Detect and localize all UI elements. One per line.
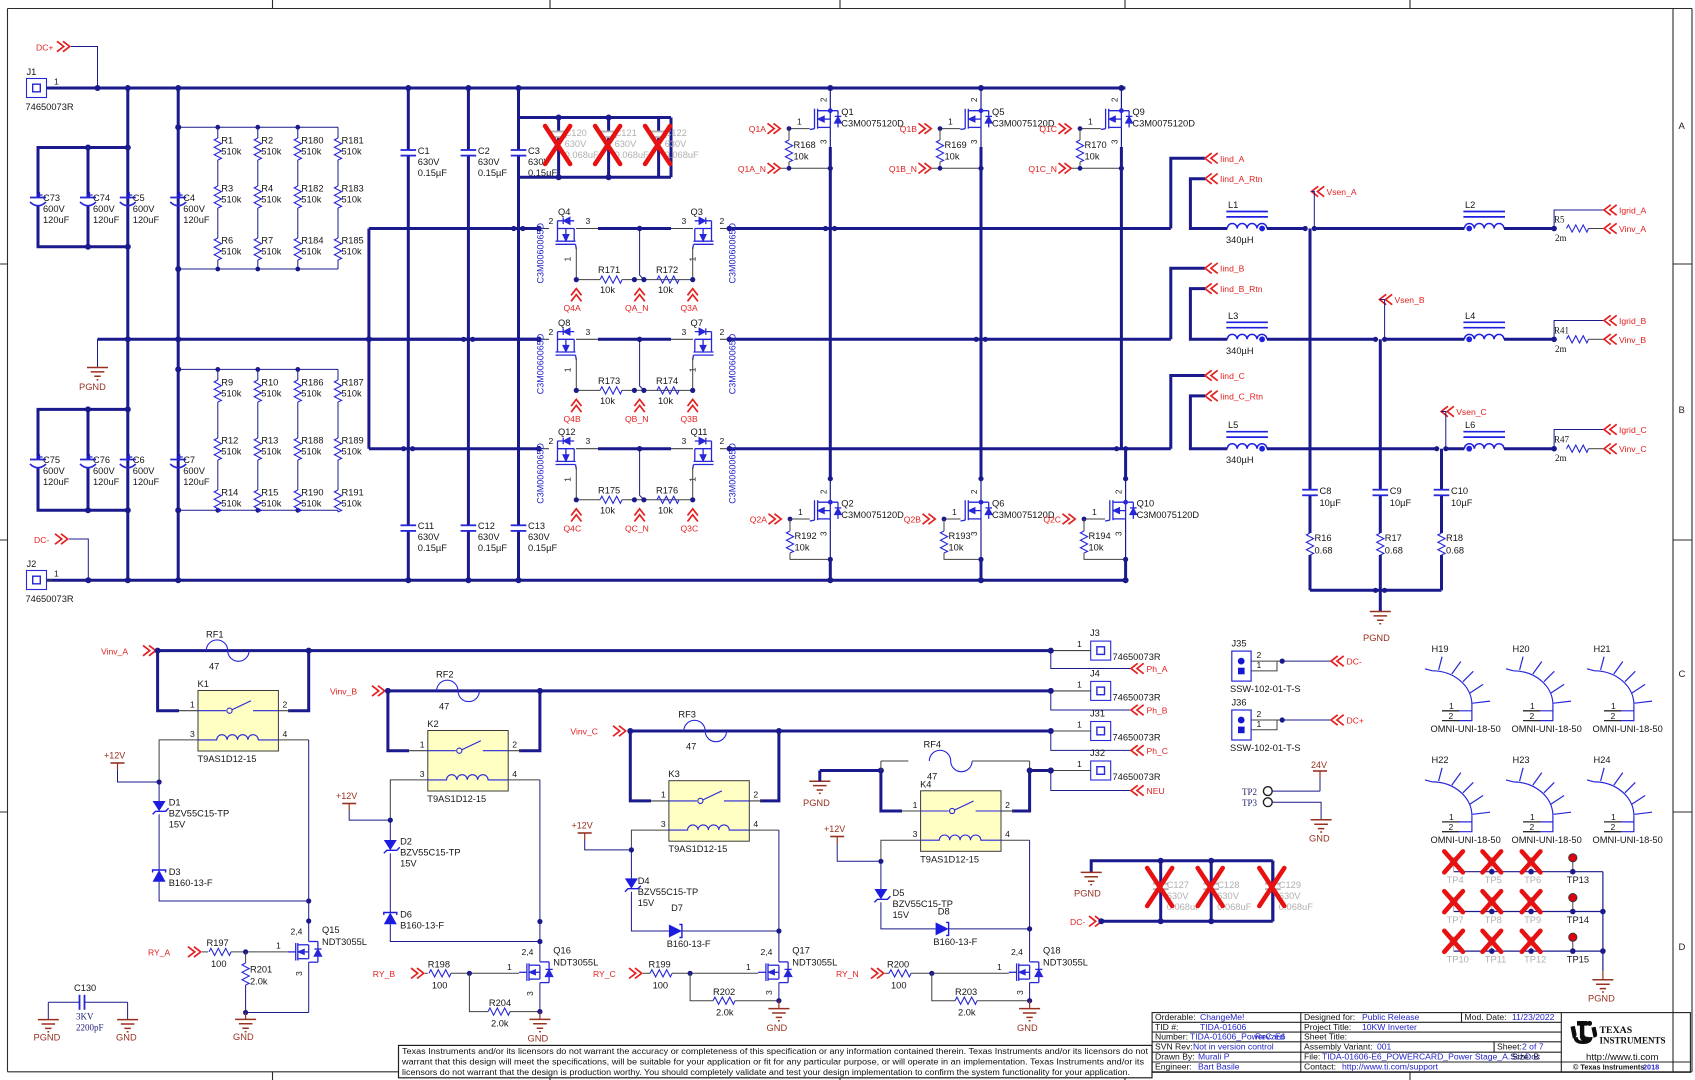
relay K4 T9AS1D12-15 bbox=[921, 791, 1001, 852]
svg-text:R14: R14 bbox=[221, 488, 238, 498]
svg-text:2200pF: 2200pF bbox=[76, 1023, 104, 1033]
svg-text:TP14: TP14 bbox=[1567, 915, 1589, 925]
wire source Q1 bbox=[829, 127, 831, 147]
svg-text:K2: K2 bbox=[427, 719, 438, 729]
svg-text:10µF: 10µF bbox=[1320, 498, 1342, 508]
svg-text:TP7: TP7 bbox=[1447, 915, 1464, 925]
svg-text:510k: 510k bbox=[301, 447, 322, 457]
wire column C10 bbox=[1440, 449, 1443, 490]
svg-text:L2: L2 bbox=[1465, 200, 1475, 210]
ground PGND C127 bank bbox=[1081, 872, 1102, 884]
svg-text:R201: R201 bbox=[250, 965, 272, 975]
wire resnet1 column links bbox=[217, 127, 219, 138]
svg-text:Vinv_A: Vinv_A bbox=[1619, 224, 1646, 234]
resistor R194 10k bbox=[1083, 519, 1085, 531]
svg-text:2: 2 bbox=[1257, 709, 1262, 719]
junctions on DC- bus bbox=[85, 577, 91, 583]
wire junction to L2 bbox=[1314, 227, 1464, 230]
DNP X over C129 bbox=[1259, 868, 1284, 906]
wire row left segment bbox=[369, 338, 539, 341]
wire L4 to sense bbox=[1504, 338, 1554, 341]
svg-text:H19: H19 bbox=[1432, 644, 1449, 654]
capacitor C76 bbox=[80, 459, 96, 461]
svg-text:TID #:: TID #: bbox=[1155, 1022, 1178, 1032]
svg-text:3: 3 bbox=[764, 990, 774, 995]
svg-text:Mod. Date:: Mod. Date: bbox=[1465, 1012, 1507, 1022]
svg-text:C3M0075120D: C3M0075120D bbox=[841, 119, 904, 129]
svg-text:600V: 600V bbox=[133, 204, 156, 214]
svg-text:1: 1 bbox=[1530, 701, 1535, 711]
capacitor C13 0.15uF bbox=[511, 524, 527, 526]
wire D1 to D3 bbox=[158, 814, 160, 870]
wire DC- entry bbox=[69, 539, 88, 580]
DNP X over C128 bbox=[1198, 868, 1223, 906]
svg-text:C12: C12 bbox=[478, 521, 495, 531]
resistor R182 510k bbox=[294, 186, 301, 208]
svg-text:510k: 510k bbox=[221, 499, 242, 509]
test point TP15 bbox=[1569, 933, 1577, 941]
inductor L2 bbox=[1464, 224, 1504, 229]
title block bbox=[1152, 1013, 1690, 1073]
resistor R201 2.0k bbox=[245, 952, 247, 963]
svg-text:2,4: 2,4 bbox=[761, 947, 773, 957]
wire C127 bank bottom rail bbox=[1101, 920, 1273, 923]
diode D7 B160-13-F schottky bbox=[669, 925, 682, 938]
capacitor C10 10uF bbox=[1434, 489, 1450, 491]
svg-text:PGND: PGND bbox=[803, 798, 830, 808]
svg-text:3: 3 bbox=[913, 829, 918, 839]
svg-text:600V: 600V bbox=[183, 466, 206, 476]
wire +12V to D2 bbox=[349, 811, 390, 821]
svg-text:15V: 15V bbox=[400, 859, 417, 869]
wire RY_B to R198 bbox=[425, 972, 428, 974]
test point TP12 DNP bbox=[1528, 937, 1535, 944]
svg-text:3: 3 bbox=[1015, 990, 1025, 995]
svg-text:R191: R191 bbox=[342, 488, 364, 498]
test point TP13 bbox=[1569, 854, 1577, 862]
svg-text:2m: 2m bbox=[1555, 344, 1567, 354]
svg-text:C13: C13 bbox=[528, 521, 545, 531]
net label Vsen_A bbox=[1312, 186, 1325, 196]
svg-text:R171: R171 bbox=[598, 265, 620, 275]
wire K2 right drop bbox=[519, 691, 540, 751]
svg-text:2 of 7: 2 of 7 bbox=[1522, 1042, 1544, 1052]
svg-text:10k: 10k bbox=[795, 543, 810, 553]
svg-text:C3M0060065D: C3M0060065D bbox=[728, 333, 738, 394]
svg-text:2.0k: 2.0k bbox=[958, 1008, 976, 1018]
svg-text:L6: L6 bbox=[1465, 420, 1475, 430]
svg-text:510k: 510k bbox=[221, 195, 242, 205]
diode D4 BZV55C15-TP zener 15V bbox=[630, 850, 632, 879]
svg-text:ChangeMe!: ChangeMe! bbox=[1200, 1012, 1244, 1022]
relay K2 T9AS1D12-15 bbox=[428, 731, 508, 792]
wire J36 pins bbox=[1251, 719, 1282, 721]
svg-text:TP4: TP4 bbox=[1447, 875, 1464, 885]
svg-text:RY_N: RY_N bbox=[836, 969, 859, 979]
svg-text:Q6: Q6 bbox=[992, 499, 1004, 509]
svg-text:Q3A: Q3A bbox=[681, 303, 698, 313]
svg-text:Q9: Q9 bbox=[1132, 107, 1144, 117]
transistor Q7 C3M0060065D bbox=[693, 328, 714, 360]
net label Q3A bbox=[688, 289, 698, 302]
capacitor C8 10uF bbox=[1302, 489, 1318, 491]
wire K2 pin3 lead bbox=[390, 780, 428, 820]
svg-text:1: 1 bbox=[746, 962, 751, 972]
wire D7 to K3.4 node bbox=[682, 930, 779, 932]
svg-text:R169: R169 bbox=[945, 140, 967, 150]
svg-text:Q12: Q12 bbox=[558, 427, 576, 437]
svg-text:1: 1 bbox=[1077, 639, 1082, 649]
wire neutral link column bbox=[367, 229, 370, 449]
svg-text:L3: L3 bbox=[1228, 311, 1238, 321]
svg-text:Public Release: Public Release bbox=[1362, 1012, 1420, 1022]
wire K4 pin3 lead bbox=[881, 840, 921, 861]
svg-text:3: 3 bbox=[586, 216, 591, 226]
svg-text:1: 1 bbox=[1530, 812, 1535, 822]
svg-text:510k: 510k bbox=[221, 389, 242, 399]
resistor R185 510k bbox=[334, 238, 341, 260]
wire drain Q1 bbox=[829, 88, 831, 111]
svg-text:Igrid_A: Igrid_A bbox=[1619, 206, 1646, 216]
wire K3 right drop bbox=[760, 731, 779, 801]
svg-text:SVN Rev:: SVN Rev: bbox=[1155, 1042, 1193, 1052]
wire row right segment bbox=[720, 338, 729, 340]
wire J35 pins bbox=[1251, 660, 1282, 662]
transistor Q16 NDT3055L bbox=[519, 962, 553, 983]
svg-text:11/23/2022: 11/23/2022 bbox=[1512, 1012, 1555, 1022]
diode D8 B160-13-F schottky bbox=[936, 922, 949, 935]
svg-text:+12V: +12V bbox=[104, 751, 125, 761]
svg-text:D2: D2 bbox=[400, 837, 412, 847]
svg-text:3: 3 bbox=[586, 327, 591, 337]
capacitor C122 DNP bbox=[657, 118, 660, 132]
svg-text:R186: R186 bbox=[301, 378, 323, 388]
junction jog Q1 source to row1 bbox=[823, 226, 828, 231]
wire D3 to K1.4 node bbox=[159, 882, 309, 901]
svg-text:600V: 600V bbox=[43, 204, 66, 214]
test point TP8 DNP bbox=[1488, 898, 1495, 905]
svg-text:47: 47 bbox=[439, 702, 449, 712]
resistor R192 10k bbox=[789, 519, 791, 531]
svg-text:R1: R1 bbox=[221, 136, 233, 146]
svg-text:2: 2 bbox=[819, 97, 828, 102]
svg-text:RF1: RF1 bbox=[206, 630, 224, 640]
wire J36 to DC+ bbox=[1282, 719, 1331, 721]
svg-text:2: 2 bbox=[1449, 822, 1454, 832]
svg-text:C3M0060065D: C3M0060065D bbox=[728, 443, 738, 504]
svg-text:B160-13-F: B160-13-F bbox=[933, 937, 977, 947]
svg-text:3: 3 bbox=[970, 531, 979, 536]
svg-text:Q2A: Q2A bbox=[750, 515, 767, 525]
svg-text:TEXAS: TEXAS bbox=[1600, 1025, 1633, 1036]
net label Ph_A bbox=[1131, 663, 1144, 673]
svg-text:Igrid_B: Igrid_B bbox=[1619, 316, 1646, 326]
svg-text:TP9: TP9 bbox=[1524, 915, 1541, 925]
svg-text:Q4: Q4 bbox=[558, 207, 570, 217]
wire Iind_B loop bbox=[1171, 268, 1205, 339]
svg-text:74650073R: 74650073R bbox=[1113, 652, 1161, 662]
resistor R174 10k bbox=[657, 387, 679, 394]
svg-text:R180: R180 bbox=[301, 136, 323, 146]
svg-text:510k: 510k bbox=[301, 195, 322, 205]
junction at filter cap L1 bbox=[1303, 226, 1308, 231]
svg-text:2: 2 bbox=[283, 700, 288, 710]
wire L3 to junction bbox=[1267, 338, 1376, 341]
wire Ph_A branch bbox=[1051, 651, 1131, 669]
resistor R18 0.68 bbox=[1438, 533, 1445, 555]
svg-text:2: 2 bbox=[1257, 650, 1262, 660]
svg-text:OMNI-UNI-18-50: OMNI-UNI-18-50 bbox=[1431, 724, 1501, 734]
inductor L5 340uH bbox=[1227, 444, 1267, 449]
svg-text:C7: C7 bbox=[183, 455, 195, 465]
capacitor C4 bbox=[170, 197, 186, 199]
svg-text:510k: 510k bbox=[301, 247, 322, 257]
svg-text:2: 2 bbox=[819, 489, 828, 494]
svg-text:Sheet:: Sheet: bbox=[1497, 1042, 1522, 1052]
svg-text:1: 1 bbox=[1077, 679, 1082, 689]
wire gate Q10 bbox=[1084, 518, 1105, 520]
resistor R189 510k bbox=[334, 438, 341, 460]
resistor R13 510k bbox=[254, 438, 261, 460]
svg-text:Q18: Q18 bbox=[1043, 946, 1061, 956]
svg-text:H22: H22 bbox=[1432, 755, 1449, 765]
svg-text:2.0k: 2.0k bbox=[491, 1019, 509, 1029]
svg-text:1: 1 bbox=[661, 790, 666, 800]
svg-text:510k: 510k bbox=[342, 447, 363, 457]
capacitor C75 bbox=[30, 459, 46, 461]
wire Iind_B_Rtn return bbox=[1190, 289, 1227, 340]
svg-text:510k: 510k bbox=[221, 247, 242, 257]
svg-text:100: 100 bbox=[211, 959, 227, 969]
svg-text:T9AS1D12-15: T9AS1D12-15 bbox=[427, 794, 486, 804]
svg-text:Q2B: Q2B bbox=[904, 515, 921, 525]
wire mid tap bbox=[640, 339, 644, 390]
svg-text:600V: 600V bbox=[93, 204, 116, 214]
wire Vsen_C tap bbox=[1441, 412, 1446, 449]
wire J35 to DC- bbox=[1282, 660, 1331, 662]
net label Vsen_B bbox=[1380, 294, 1393, 304]
svg-text:10k: 10k bbox=[945, 152, 960, 162]
resistor R1 510k bbox=[214, 138, 221, 160]
svg-text:1: 1 bbox=[1077, 759, 1082, 769]
ground PGND left bbox=[97, 339, 99, 367]
svg-text:1: 1 bbox=[54, 569, 59, 579]
svg-text:Drawn By:: Drawn By: bbox=[1155, 1052, 1195, 1062]
svg-text:OMNI-UNI-18-50: OMNI-UNI-18-50 bbox=[1431, 835, 1501, 845]
net label QB_N bbox=[634, 399, 644, 412]
svg-text:Contact:: Contact: bbox=[1304, 1062, 1336, 1072]
svg-text:T9AS1D12-15: T9AS1D12-15 bbox=[198, 754, 257, 764]
svg-text:10k: 10k bbox=[600, 285, 615, 295]
resistor R171 10k bbox=[600, 276, 622, 283]
svg-text:R203: R203 bbox=[955, 987, 977, 997]
svg-text:TP5: TP5 bbox=[1485, 875, 1502, 885]
wire R199 to gate bbox=[672, 972, 758, 974]
svg-text:C2: C2 bbox=[478, 146, 490, 156]
wire K1 left drop bbox=[158, 651, 179, 711]
resistor R191 510k bbox=[334, 490, 341, 512]
svg-text:http://www.ti.com/support: http://www.ti.com/support bbox=[1342, 1062, 1439, 1072]
resistor R15 510k bbox=[254, 490, 261, 512]
svg-text:C130: C130 bbox=[74, 983, 96, 993]
resistor R176 10k bbox=[657, 496, 679, 503]
svg-text:Bart Basile: Bart Basile bbox=[1198, 1062, 1240, 1072]
svg-text:1: 1 bbox=[1449, 701, 1454, 711]
svg-text:2: 2 bbox=[720, 436, 725, 446]
resistor R193 10k bbox=[943, 519, 945, 531]
ground GND block D bbox=[1029, 1001, 1031, 1009]
capacitor C7 bbox=[170, 459, 186, 461]
svg-text:0.68: 0.68 bbox=[1446, 546, 1464, 556]
wire +12V to D5 bbox=[837, 844, 881, 862]
svg-text:3: 3 bbox=[1115, 531, 1124, 536]
svg-text:3: 3 bbox=[682, 436, 687, 446]
svg-text:TP3: TP3 bbox=[1242, 798, 1258, 808]
svg-text:R183: R183 bbox=[342, 184, 364, 194]
svg-text:Murali P: Murali P bbox=[1198, 1052, 1230, 1062]
svg-text:J1: J1 bbox=[27, 67, 37, 77]
ground PGND block D bbox=[809, 781, 830, 793]
net label Igrid_A bbox=[1604, 205, 1617, 215]
svg-text:Engineer:: Engineer: bbox=[1155, 1062, 1192, 1072]
wire gate Q2 bbox=[790, 518, 810, 520]
svg-text:2.0k: 2.0k bbox=[716, 1008, 734, 1018]
svg-text:D8: D8 bbox=[938, 907, 950, 917]
wire column C1/C11 bbox=[407, 88, 410, 150]
svg-text:D6: D6 bbox=[400, 910, 412, 920]
wire Q18 source down bbox=[1029, 983, 1031, 1001]
wire column C9 bbox=[1379, 339, 1382, 489]
wire K3 pin4 to Q17 drain bbox=[749, 829, 779, 831]
svg-text:licensors do not warrant that: licensors do not warrant that the design… bbox=[402, 1068, 1130, 1077]
wire source Q10 bbox=[1125, 519, 1127, 560]
ground GND block C bbox=[778, 1001, 780, 1009]
wire DC+ bus bbox=[47, 87, 1125, 90]
test point TP6 DNP bbox=[1528, 858, 1535, 865]
svg-text:3: 3 bbox=[819, 531, 828, 536]
wire row left segment bbox=[369, 227, 539, 230]
svg-text:1: 1 bbox=[798, 507, 803, 517]
svg-text:D1: D1 bbox=[169, 798, 181, 808]
svg-text:J36: J36 bbox=[1232, 698, 1247, 708]
svg-text:R197: R197 bbox=[207, 938, 229, 948]
svg-text:L4: L4 bbox=[1465, 311, 1475, 321]
svg-text:100: 100 bbox=[432, 980, 448, 990]
wire source Q5 bbox=[980, 127, 982, 147]
net label Q4C bbox=[571, 509, 581, 522]
transistor Q5 C3M0075120D bbox=[961, 109, 993, 130]
svg-text:K1: K1 bbox=[198, 679, 209, 689]
svg-text:630V: 630V bbox=[418, 157, 441, 167]
DNP X over C121 bbox=[595, 126, 620, 164]
wire Vinv_A bus to J3 bbox=[158, 649, 1051, 652]
wire RY_A to R197 bbox=[202, 951, 208, 953]
svg-text:R193: R193 bbox=[949, 531, 971, 541]
net label Vinv_B bbox=[1604, 334, 1617, 344]
svg-text:2: 2 bbox=[970, 489, 979, 494]
svg-text:C3M0060065D: C3M0060065D bbox=[536, 333, 546, 394]
svg-text:TP10: TP10 bbox=[1447, 955, 1469, 965]
svg-text:10k: 10k bbox=[600, 396, 615, 406]
svg-text:2: 2 bbox=[753, 790, 758, 800]
net label Q3B bbox=[688, 399, 698, 412]
svg-text:Q1C_N: Q1C_N bbox=[1028, 164, 1057, 174]
svg-text:1: 1 bbox=[420, 740, 425, 750]
wire column C8 bbox=[1309, 229, 1312, 490]
svg-text:74650073R: 74650073R bbox=[1113, 772, 1161, 782]
wire +12V to D4 bbox=[585, 840, 632, 850]
net label Iind_C_Rtn bbox=[1205, 391, 1218, 401]
svg-text:4: 4 bbox=[512, 769, 517, 779]
svg-text:DC+: DC+ bbox=[36, 43, 53, 53]
svg-text:3: 3 bbox=[586, 436, 591, 446]
svg-text:0.068uF: 0.068uF bbox=[615, 150, 649, 160]
svg-text:10k: 10k bbox=[949, 543, 964, 553]
resistor R186 510k bbox=[294, 380, 301, 402]
wire Vinv_B bus to J4 bbox=[386, 689, 1051, 692]
wire gate Q5 bbox=[940, 128, 961, 130]
svg-text:Q5: Q5 bbox=[992, 107, 1004, 117]
capacitor C9 10uF bbox=[1373, 489, 1389, 491]
net label DC- bbox=[1331, 656, 1344, 666]
svg-text:Vinv_B: Vinv_B bbox=[330, 687, 357, 697]
resistor R41 2m bbox=[1567, 336, 1589, 343]
transistor Q2 C3M0075120D bbox=[810, 500, 842, 521]
wire row right segment bbox=[720, 448, 729, 450]
fuse RF1 47 bbox=[206, 640, 249, 661]
wire R204 to Q16 source bbox=[510, 1011, 540, 1013]
net label Vsen_C bbox=[1441, 406, 1454, 416]
svg-text:B160-13-F: B160-13-F bbox=[667, 939, 711, 949]
svg-text:GND: GND bbox=[233, 1032, 254, 1042]
svg-text:Q4B: Q4B bbox=[564, 414, 581, 424]
resistor R181 510k bbox=[334, 138, 341, 160]
svg-text:Q10: Q10 bbox=[1137, 499, 1155, 509]
svg-text:Q3: Q3 bbox=[691, 207, 703, 217]
ground GND block A bbox=[245, 1013, 247, 1020]
resistor R2 510k bbox=[254, 138, 261, 160]
resistor R5 2m bbox=[1567, 225, 1589, 232]
svg-text:Igrid_C: Igrid_C bbox=[1619, 425, 1647, 435]
svg-text:0.15µF: 0.15µF bbox=[418, 543, 447, 553]
wire DC+ entry bbox=[71, 47, 98, 89]
svg-text:D7: D7 bbox=[671, 903, 683, 913]
svg-text:C: C bbox=[1679, 669, 1686, 680]
svg-text:RF4: RF4 bbox=[924, 740, 942, 750]
svg-text:Vinv_A: Vinv_A bbox=[101, 646, 128, 656]
wire Ph_B branch bbox=[1051, 691, 1131, 710]
svg-text:Vinv_B: Vinv_B bbox=[1619, 335, 1646, 345]
resistor R197 100 bbox=[209, 948, 231, 955]
net label Vinv_A bbox=[1604, 223, 1617, 233]
junction at filter cap L3 bbox=[1373, 337, 1378, 342]
svg-text:120uF: 120uF bbox=[43, 477, 70, 487]
wire Igrid_C branch bbox=[1554, 430, 1604, 449]
svg-text:10k: 10k bbox=[658, 505, 673, 515]
svg-text:2.0k: 2.0k bbox=[250, 977, 268, 987]
svg-text:0.068uF: 0.068uF bbox=[665, 150, 699, 160]
wire gate row Q8 bbox=[575, 358, 577, 390]
wire Iind_C loop bbox=[1171, 376, 1205, 449]
svg-text:15V: 15V bbox=[169, 820, 186, 830]
svg-text:J31: J31 bbox=[1090, 709, 1105, 719]
resistor R17 0.68 bbox=[1377, 533, 1384, 555]
capacitor C11 0.15uF bbox=[401, 524, 417, 526]
wire gate return Q2 bbox=[790, 553, 830, 559]
net label Q4B bbox=[571, 399, 581, 412]
svg-text:D: D bbox=[1679, 942, 1686, 953]
ground GND TP3 bbox=[1311, 820, 1332, 832]
